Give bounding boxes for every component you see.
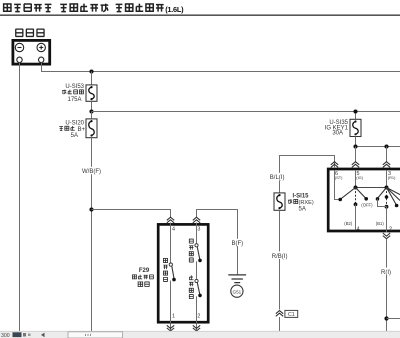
wire bottom right to edge	[387, 318, 400, 320]
status tiny text 300	[1, 332, 31, 338]
svg-text:U-SI20: U-SI20	[65, 120, 84, 126]
wire fuse U-SI53 feed	[91, 72, 93, 86]
label B/L(I)	[269, 173, 287, 181]
wire bus B to fuse U-SI35	[355, 112, 357, 120]
wire horizontal bus B	[92, 111, 400, 113]
switch 中压开关 medium pressure	[163, 223, 175, 324]
label R/B(I)	[271, 251, 289, 259]
label R(I)	[380, 268, 394, 276]
svg-text:30A: 30A	[332, 131, 343, 137]
svg-text:G51: G51	[233, 289, 242, 294]
svg-text:5A: 5A	[71, 133, 78, 139]
svg-text:(R1): (R1)	[388, 175, 396, 180]
wire W/B(F) down	[91, 138, 93, 332]
label F29 三挡压力开关	[132, 268, 153, 286]
svg-text:R(I): R(I)	[381, 270, 391, 276]
connector C1 chevron	[273, 310, 286, 318]
svg-text:2: 2	[197, 314, 200, 320]
wire pin3 internal	[386, 170, 388, 188]
node tap to pin3	[384, 144, 388, 148]
svg-text:175A: 175A	[67, 97, 81, 103]
wire battery positive to bus	[42, 63, 400, 72]
wire to fuse U-SI20	[91, 112, 93, 120]
switch ignition right rotor	[376, 186, 400, 233]
svg-text:B(F): B(F)	[232, 241, 244, 247]
wire U-SI35 output bus	[356, 137, 400, 147]
svg-text:(IG): (IG)	[356, 175, 363, 180]
node bus B tap	[353, 109, 357, 113]
switch 低压开关 low pressure	[189, 261, 202, 323]
wire branch to F29 pin4	[92, 210, 171, 218]
battery	[13, 40, 50, 64]
svg-text:(RXE): (RXE)	[299, 200, 314, 206]
svg-text:3: 3	[197, 227, 200, 233]
fuse I-SI15 起动(RXE) 5A	[274, 193, 314, 213]
svg-text:1: 1	[172, 314, 175, 320]
wire to ignition pin3	[386, 147, 388, 162]
svg-text:300: 300	[1, 333, 10, 338]
connector chevron F29 pin4	[167, 217, 174, 223]
battery label 蓄电池	[15, 29, 44, 36]
svg-text:4: 4	[172, 227, 175, 233]
connector chevron below F29 pin1	[167, 323, 174, 331]
svg-text:(OFF): (OFF)	[361, 203, 373, 208]
svg-text:5A: 5A	[299, 207, 306, 213]
svg-text:(ST): (ST)	[335, 175, 343, 180]
node bottom right junction	[384, 316, 388, 320]
svg-text:R/B(I): R/B(I)	[272, 254, 288, 260]
ground G51	[228, 275, 246, 297]
wire U-SI53 to node	[91, 101, 93, 111]
pin 2 label	[197, 314, 200, 320]
wire ignition pin6 to fuse I-SI15	[280, 156, 335, 194]
svg-text:(B2): (B2)	[344, 221, 353, 226]
pin 4 label	[172, 227, 175, 233]
wire to ignition pin5	[355, 147, 357, 162]
node IG bus junction	[89, 109, 93, 113]
pin 5 label (IG)	[356, 171, 363, 180]
connector chevron below ignition pin2	[383, 233, 390, 239]
fuse U-SI53 主保险丝 175A	[62, 84, 97, 103]
wire pin6 internal	[335, 170, 339, 200]
connector chevron ignition pin6	[331, 162, 338, 168]
node fuse output	[353, 144, 357, 148]
node junction on B+ bus	[89, 69, 93, 73]
connector chevron ignition pin5	[352, 162, 359, 168]
svg-text:W/B(F): W/B(F)	[82, 169, 101, 175]
connector label C1	[285, 310, 298, 318]
pin (B1) 2 labels	[376, 221, 392, 232]
svg-text:I-SI15: I-SI15	[293, 194, 310, 200]
fuse U-SI20 发动机B+ 5A	[59, 119, 97, 139]
pin 6 label (ST)	[335, 171, 343, 180]
svg-text:(B1): (B1)	[376, 221, 385, 226]
node branch to F29	[89, 207, 93, 211]
switch ignition left rotor	[338, 186, 373, 230]
svg-text:U-SI53: U-SI53	[65, 84, 84, 90]
wire rotor bus	[356, 187, 387, 189]
scrollbar thumb	[68, 332, 123, 338]
pin 3 label (R1)	[388, 171, 396, 180]
svg-text:B/L(I): B/L(I)	[270, 175, 285, 181]
pin 1 label	[172, 314, 175, 320]
svg-text:(1.6L): (1.6L)	[165, 5, 184, 14]
title 总体电路图 发动机系统 发动机控制(1.6L)	[4, 4, 185, 14]
wire battery negative down left side	[19, 63, 21, 332]
switch 高压开关 high pressure	[189, 223, 202, 263]
connector chevron F29 pin3	[193, 217, 200, 223]
connector chevron below F29 pin2	[193, 323, 200, 331]
connector chevron ignition pin3	[383, 162, 390, 168]
label B(F)	[231, 239, 245, 247]
scrollbar track	[0, 331, 400, 338]
svg-text:4: 4	[357, 226, 360, 232]
svg-text:F29: F29	[139, 268, 150, 274]
svg-text:B+: B+	[78, 127, 86, 133]
ignition switch box	[328, 169, 400, 231]
fuse U-SI35 IG KEY1 30A	[325, 119, 361, 136]
svg-text:2: 2	[389, 226, 392, 232]
switch F29 三挡压力开关 box	[158, 224, 208, 322]
scrollbar left arrow	[41, 333, 45, 338]
wire F29 pin3 to ground branch	[197, 210, 238, 275]
wire R/B(I) down to C1	[279, 210, 281, 331]
pin (B2) 4 labels	[344, 221, 359, 232]
pin 3 label	[197, 227, 200, 233]
wire pin5 internal	[355, 170, 357, 188]
svg-text:C1: C1	[288, 312, 295, 318]
wire R(I) down	[386, 239, 388, 332]
label W/B(F)	[81, 167, 103, 175]
title underline	[0, 14, 400, 16]
